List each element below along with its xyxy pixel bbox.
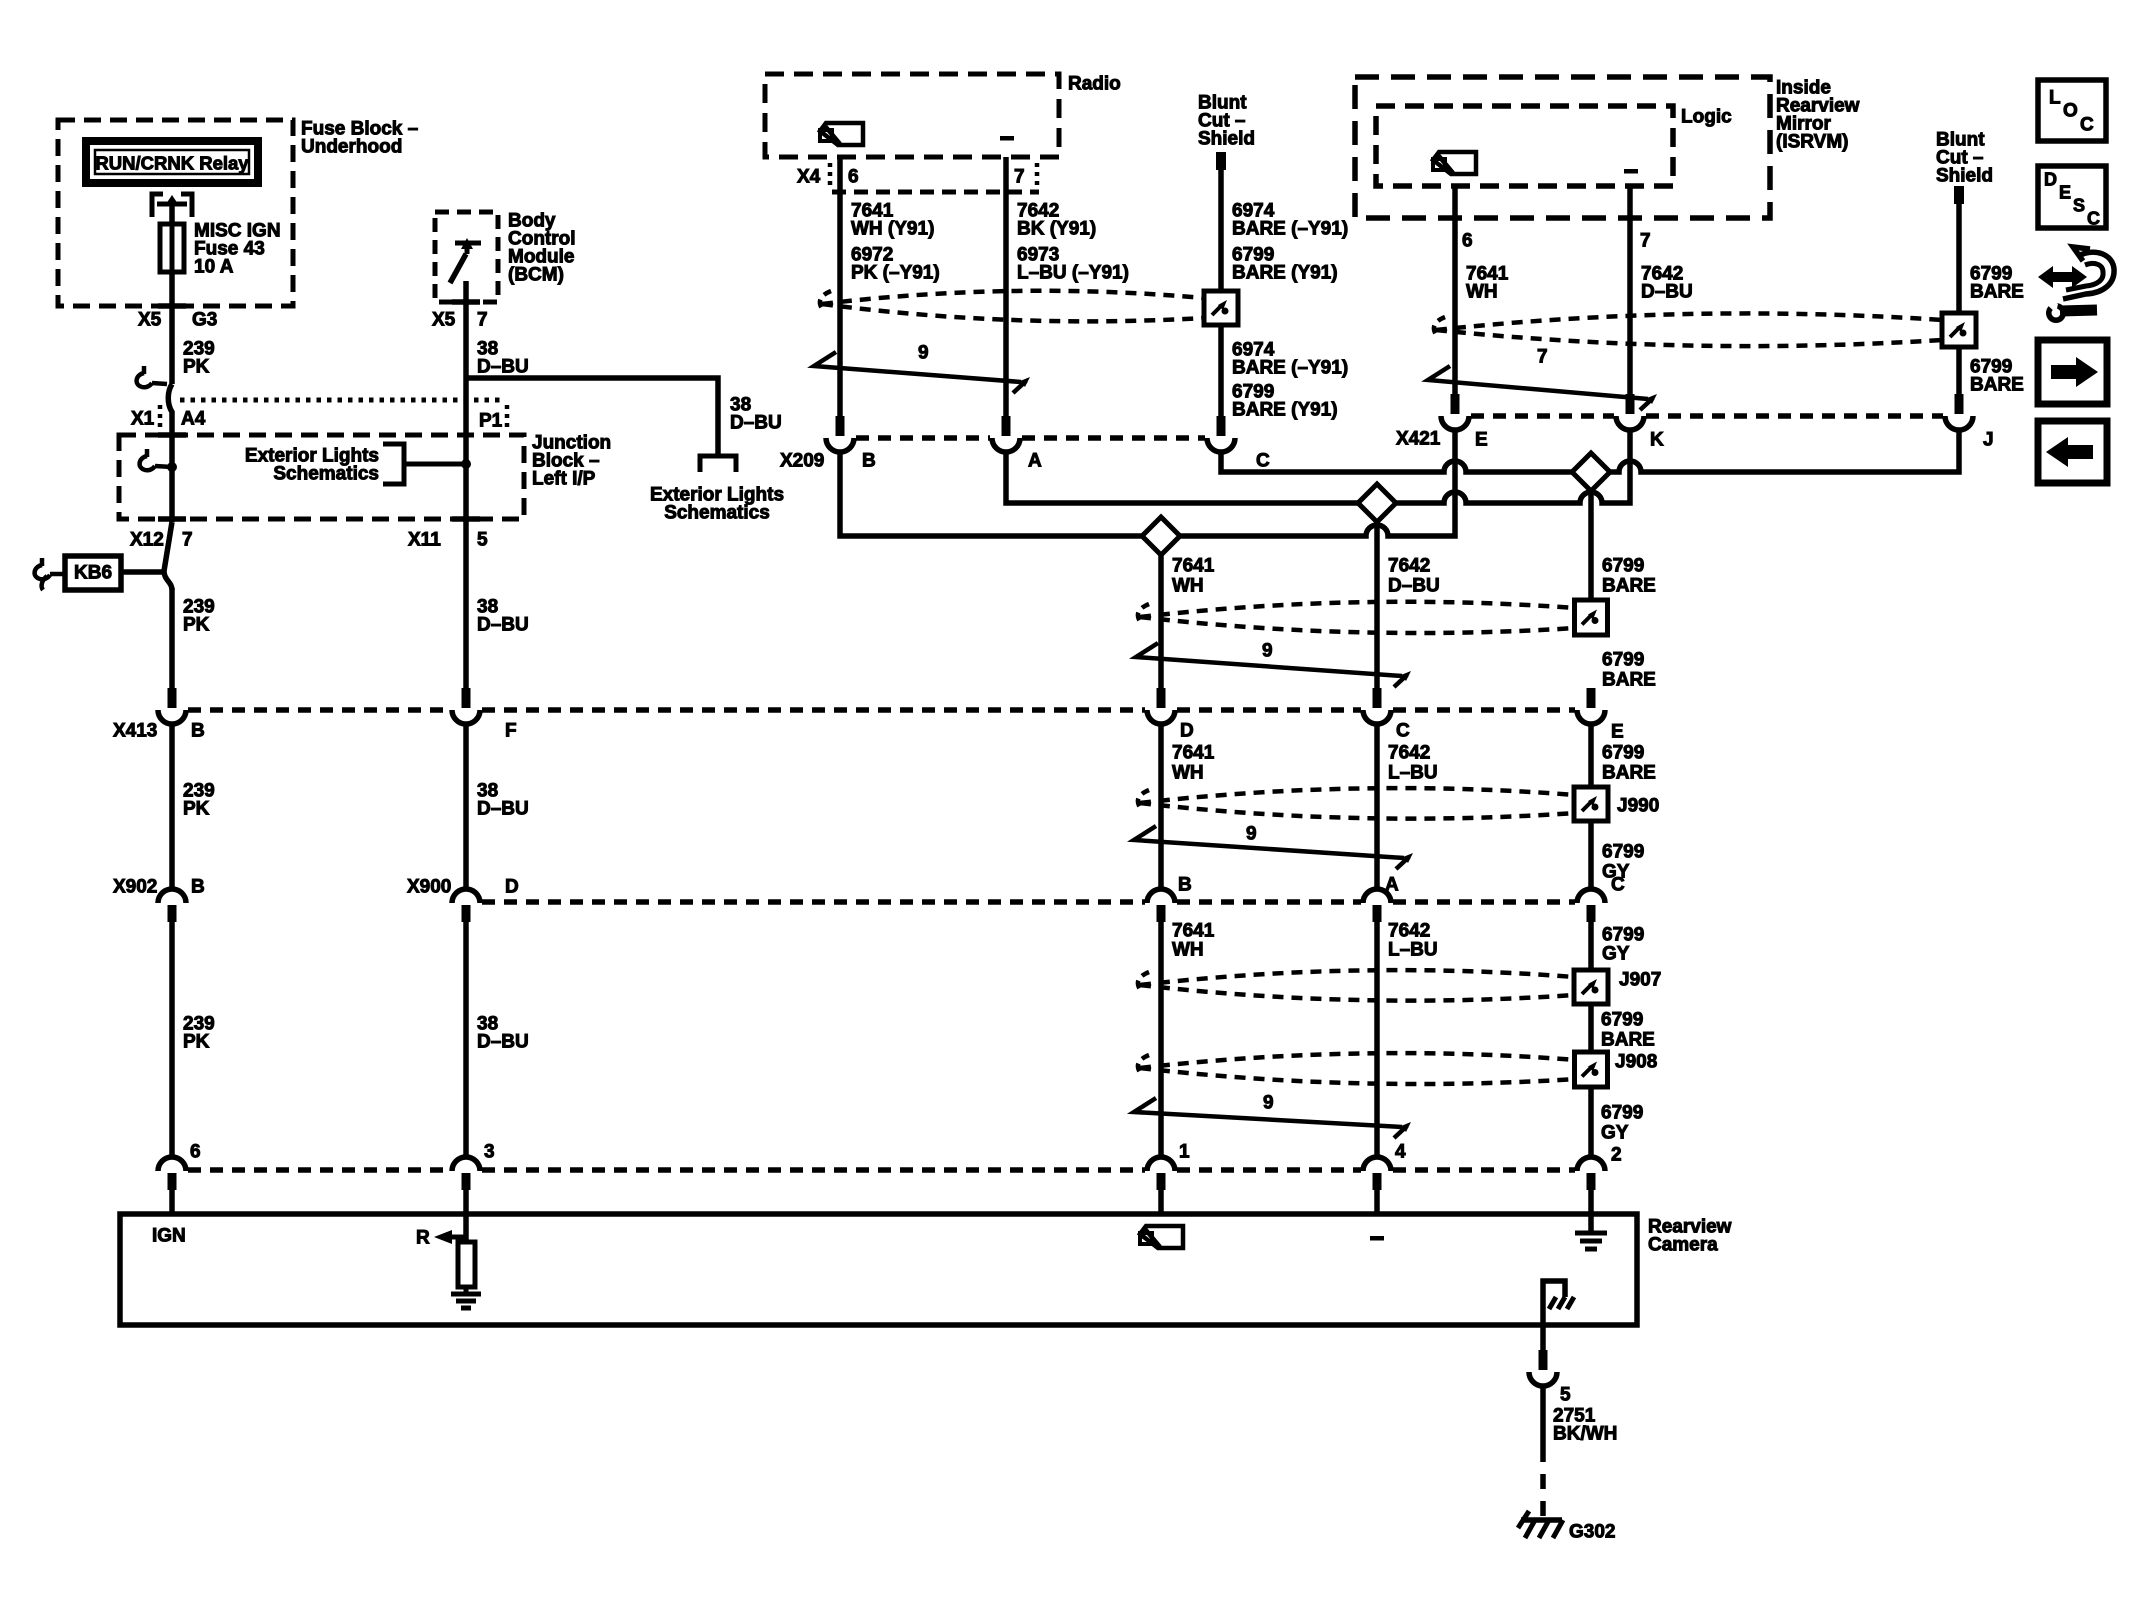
connector X11 pin 5 tick (408, 519, 488, 551)
svg-text:1: 1 (1179, 1142, 1190, 1163)
svg-text:WH: WH (1172, 763, 1204, 784)
svg-text:WH (Y91): WH (Y91) (851, 219, 934, 240)
label 7641 WH (ISRVM) (1466, 264, 1509, 303)
svg-text:X421: X421 (1396, 429, 1441, 450)
label R with arrow (416, 1228, 466, 1249)
label Logic (1681, 107, 1732, 128)
label 7642 BK (Y91) 6973 L-BU (-Y91) (1017, 201, 1129, 284)
svg-text:C: C (1396, 721, 1410, 742)
wire radio pin7 7642 (1003, 157, 1009, 416)
svg-text:K: K (1650, 430, 1664, 451)
connector X12 pin 7 tick (130, 519, 193, 551)
svg-text:E: E (2059, 183, 2071, 203)
wire KB6 to main wire (50, 572, 164, 574)
svg-text:D–BU: D–BU (477, 357, 529, 378)
label 6799 BARE between J907 J908 (1601, 1010, 1655, 1051)
label ISRVM pins 6 and 7 (1462, 231, 1651, 252)
wire 2751 BK/WH to G302 (1540, 1385, 1546, 1516)
svg-text:WH: WH (1466, 282, 1498, 303)
connector pin 5 (1529, 1350, 1571, 1406)
svg-text:D–BU: D–BU (730, 413, 782, 434)
svg-text:C: C (2087, 209, 2100, 229)
label X1 A4 (131, 405, 206, 430)
label P1 (479, 405, 507, 432)
svg-text:PK: PK (183, 615, 210, 636)
wire into camera R input (463, 1190, 469, 1242)
wire into camera IGN (169, 1190, 175, 1214)
svg-text:X12: X12 (130, 530, 164, 551)
connector row D C E dashed line (188, 707, 1575, 713)
label Exterior Lights Schematics 2 (650, 485, 784, 524)
svg-text:Left I/P: Left I/P (532, 469, 596, 490)
sidebar next arrow button (2038, 340, 2107, 404)
svg-text:X11: X11 (408, 530, 441, 551)
svg-text:6799: 6799 (1602, 650, 1644, 671)
svg-text:J: J (1983, 430, 1994, 451)
label Exterior Lights Schematics 1 (245, 446, 379, 485)
blunt cut shield wire terminal (1216, 152, 1226, 170)
svg-text:E: E (1611, 722, 1624, 743)
shield termination box (ISRVM) (1942, 313, 1976, 347)
svg-text:L: L (2049, 88, 2061, 109)
svg-text:7642: 7642 (1388, 556, 1430, 577)
wire 6799 J908 to camera (1588, 1087, 1594, 1158)
label 6799 BARE row2 (1602, 743, 1656, 784)
label Body Control Module (BCM) (508, 211, 576, 286)
label 6799 BARE below box row1 (1602, 650, 1656, 691)
connector X5 pin 7 tick (BCM) (432, 302, 488, 331)
wire 6799 J990 to row3 (1588, 821, 1594, 890)
splice hook inside junction block (140, 449, 177, 472)
wire 38 D-BU through junction block (463, 400, 469, 519)
camera symbol in camera box (1140, 1226, 1183, 1248)
svg-text:7: 7 (1537, 347, 1548, 368)
label X900 D (407, 877, 519, 898)
chassis ground symbol in camera box (1543, 1281, 1574, 1325)
relay K RUN/CRNK Relay box (86, 141, 258, 183)
twisted pair symbol 9 row2 (1134, 824, 1413, 870)
svg-text:6799: 6799 (1601, 1103, 1643, 1124)
label X413 B (113, 721, 205, 742)
svg-text:A: A (1028, 451, 1042, 472)
BCM internal switch (450, 238, 481, 283)
svg-text:6799: 6799 (1602, 743, 1644, 764)
connector X902 pin B (158, 889, 186, 922)
wire 38 D-BU to X900 (463, 722, 469, 890)
wire 7641 row2-row3 (1158, 722, 1164, 890)
svg-text:GY: GY (1602, 944, 1630, 965)
svg-text:GY: GY (1601, 1123, 1629, 1144)
svg-text:P1: P1 (479, 411, 503, 432)
label Blunt Cut Shield (radio) (1198, 93, 1255, 150)
svg-text:D: D (1180, 721, 1194, 742)
svg-text:D: D (2044, 170, 2057, 190)
label 7642 D-BU (ISRVM) (1641, 264, 1693, 303)
svg-text:6: 6 (1462, 231, 1473, 252)
svg-text:6799: 6799 (1602, 842, 1644, 863)
svg-text:BARE (–Y91): BARE (–Y91) (1232, 219, 1348, 240)
svg-text:D–BU: D–BU (477, 1032, 529, 1053)
svg-text:L–BU: L–BU (1388, 940, 1438, 961)
svg-text:X4: X4 (797, 167, 821, 188)
wire ISRVM pin7 7642 D-BU (1627, 186, 1633, 396)
wire 38 D-BU to camera pin 3 (463, 922, 469, 1158)
svg-text:9: 9 (1262, 641, 1273, 662)
svg-text:5: 5 (477, 530, 488, 551)
wire 6799 J907 to J908 (1588, 1004, 1594, 1052)
label IGN (152, 1226, 186, 1247)
svg-text:2: 2 (1611, 1145, 1622, 1166)
svg-text:Shield: Shield (1936, 166, 1993, 187)
connector X209 pin C (1207, 416, 1270, 472)
svg-text:PK: PK (183, 1032, 210, 1053)
svg-text:B: B (862, 451, 876, 472)
svg-text:D–BU: D–BU (1388, 576, 1440, 597)
shield splice box J990 (1574, 787, 1659, 821)
relay output terminal (152, 194, 192, 217)
shield ellipse J907 (1138, 970, 1574, 1001)
svg-text:6: 6 (190, 1142, 201, 1163)
connector pin 1 at camera (1147, 1142, 1190, 1191)
label 6799 BARE lower (ISRVM) (1970, 357, 2024, 396)
svg-text:R: R (416, 1228, 430, 1249)
svg-text:WH: WH (1172, 940, 1204, 961)
connector pin D (1147, 688, 1194, 742)
label wire 239 PK (second) (183, 597, 215, 636)
wire jog to KB6 junction (164, 522, 172, 590)
label wire 38 D-BU (third) (477, 781, 529, 820)
svg-text:C: C (2080, 115, 2094, 136)
connector X421 row dashed (1471, 413, 1943, 419)
label 7641 WH row3 (1172, 921, 1215, 961)
label wire 38 D-BU (second) (477, 597, 529, 636)
label Rearview Camera (1648, 1217, 1732, 1256)
body control module dashed box (435, 212, 498, 302)
wire drop 7642 D-BU from splice (1374, 513, 1380, 688)
connector X209 row dashed (856, 435, 1205, 441)
junction block left I/P dashed box (119, 435, 524, 519)
shield ellipse around ISRVM pair (1434, 313, 1942, 346)
svg-text:9: 9 (1263, 1093, 1274, 1114)
wire 239 PK to camera pin 6 (169, 922, 175, 1158)
twisted pair symbol 9 row3 (1134, 1093, 1411, 1139)
label G302 (1569, 1522, 1615, 1543)
splice diamond 6799 (1572, 453, 1610, 491)
minus terminal in radio (1000, 136, 1014, 141)
svg-text:F: F (505, 721, 517, 742)
blunt cut shield terminal (ISRVM) (1954, 186, 1964, 204)
svg-text:J907: J907 (1619, 970, 1661, 991)
twisted pair symbol 9 (radio) (814, 343, 1030, 394)
camera symbol in ISRVM (1433, 152, 1476, 174)
svg-text:X5: X5 (432, 310, 456, 331)
svg-text:7: 7 (1014, 167, 1025, 188)
connector pin 4 at camera (1363, 1142, 1406, 1191)
svg-text:B: B (191, 877, 205, 898)
svg-text:BK/WH: BK/WH (1553, 1424, 1617, 1445)
connector X413 pin B (158, 688, 186, 724)
connector X4 dotted box (830, 163, 1039, 192)
wire tick crossing junction box top (158, 432, 186, 438)
svg-text:BARE: BARE (1602, 576, 1656, 597)
svg-text:3: 3 (484, 1142, 495, 1163)
svg-text:10 A: 10 A (194, 257, 234, 278)
shield termination box (radio) (1204, 291, 1238, 325)
signal ground symbol in camera box (1575, 1214, 1607, 1249)
svg-text:Logic: Logic (1681, 107, 1732, 128)
svg-text:B: B (1178, 875, 1192, 896)
svg-text:6799: 6799 (1601, 1010, 1643, 1031)
svg-text:BARE: BARE (1970, 375, 2024, 396)
label 7642 L-BU row2 (1388, 743, 1438, 784)
label 6799 GY row3 (1602, 925, 1644, 965)
minus terminal in ISRVM (1624, 169, 1638, 174)
svg-text:G3: G3 (192, 310, 217, 331)
inside rearview mirror dashed box (1355, 77, 1770, 218)
wire 239 PK to X902 (169, 722, 175, 890)
svg-text:BK (Y91): BK (Y91) (1017, 219, 1096, 240)
fuse block underhood dashed box (58, 120, 293, 306)
shield drain wire 6799 BARE (ISRVM) (1956, 204, 1962, 396)
label 6974 BARE (-Y91) 6799 BARE (Y91) upper (1232, 201, 1348, 284)
label 38 D-BU branch (730, 395, 782, 434)
connector X413 pin F (452, 688, 517, 742)
svg-text:Schematics: Schematics (273, 464, 379, 485)
svg-text:A4: A4 (181, 409, 206, 430)
wire from relay to fuse (169, 204, 175, 224)
svg-text:X5: X5 (138, 310, 162, 331)
svg-text:PK: PK (183, 799, 210, 820)
svg-text:E: E (1475, 430, 1488, 451)
label 6799 BARE upper (ISRVM) (1970, 264, 2024, 303)
camera symbol in radio (820, 123, 863, 145)
wire ISRVM pin6 7641 WH (1452, 186, 1458, 396)
svg-text:7: 7 (1640, 231, 1651, 252)
wire fuse to X5 G3 (169, 272, 175, 384)
svg-text:G302: G302 (1569, 1522, 1615, 1543)
connector row B A C dashed line (482, 899, 1575, 905)
svg-text:B: B (191, 721, 205, 742)
sidebar pointer hand icon (2038, 247, 2114, 299)
label 6799 GY above camera (1601, 1103, 1643, 1144)
label 7641 WH (Y91) 6972 PK (-Y91) (851, 201, 940, 284)
svg-text:5: 5 (1560, 1385, 1571, 1406)
svg-text:PK: PK (183, 357, 210, 378)
connector X421 pin J (1945, 394, 1994, 451)
svg-text:Schematics: Schematics (664, 503, 770, 524)
svg-text:WH: WH (1172, 576, 1204, 597)
wires into camera box (1161, 1190, 1591, 1214)
svg-text:7641: 7641 (1172, 743, 1215, 764)
wire jog through X1 A4 (168, 384, 172, 435)
label X421 (1396, 429, 1441, 450)
label X4 pins 6 and 7 (797, 167, 1025, 188)
svg-text:C: C (1256, 451, 1270, 472)
label wire 239 PK (top) (183, 339, 215, 378)
svg-text:Camera: Camera (1648, 1235, 1718, 1256)
svg-text:O: O (2063, 101, 2078, 122)
svg-text:X902: X902 (113, 877, 157, 898)
svg-text:BARE (Y91): BARE (Y91) (1232, 263, 1338, 284)
sidebar wrench icon (2042, 298, 2097, 323)
svg-text:7642: 7642 (1388, 743, 1430, 764)
svg-text:X413: X413 (113, 721, 157, 742)
twisted pair symbol 9 row1 (1136, 641, 1411, 688)
svg-text:6799: 6799 (1602, 556, 1644, 577)
sidebar previous arrow button (2038, 421, 2107, 483)
label 7642 D-BU below splice (1388, 556, 1440, 597)
label Junction Block - Left I/P (532, 433, 611, 490)
svg-text:KB6: KB6 (74, 563, 112, 584)
connector X421 pin E (1441, 394, 1488, 451)
svg-text:7642: 7642 (1388, 921, 1430, 942)
twisted pair symbol 7 (ISRVM) (1428, 347, 1657, 411)
label 7641 WH below splice (1172, 556, 1215, 597)
shield bus line C to J (1221, 429, 1959, 472)
sidebar DESC button (2038, 166, 2106, 229)
wire 6799 row2 to J990 (1588, 722, 1594, 787)
inline harness connector X1 dotted line (180, 398, 503, 403)
connector pin C row2 (1363, 688, 1410, 742)
bracket to exterior lights schematics 2 (700, 456, 736, 472)
svg-text:PK (–Y91): PK (–Y91) (851, 263, 940, 284)
svg-text:S: S (2073, 196, 2085, 216)
ground G302 (1518, 1511, 1563, 1538)
sidebar LOC button (2038, 80, 2106, 141)
wire 6799 row3 to J907 (1588, 922, 1594, 970)
label 6974 BARE (-Y91) 6799 BARE (Y91) lower (1232, 340, 1348, 421)
shield ellipse J908 (1138, 1053, 1576, 1084)
svg-text:L–BU: L–BU (1388, 763, 1438, 784)
splice diamond 7641 (1142, 517, 1180, 555)
signal bus line A to K 7642 (1006, 429, 1630, 503)
wire radio pin6 7641 (837, 157, 843, 416)
label Blunt Cut Shield (ISRVM) (1936, 130, 1993, 187)
shield splice box J908 (1575, 1052, 1658, 1088)
svg-text:X1: X1 (131, 409, 155, 430)
label wire 38 D-BU (top) (477, 339, 529, 378)
svg-text:D: D (505, 877, 519, 898)
wire 38 D-BU to X413 F (463, 519, 469, 688)
label X209 (780, 451, 824, 472)
connector pin E row2 (1577, 688, 1624, 743)
svg-text:X900: X900 (407, 877, 451, 898)
svg-text:BARE (Y91): BARE (Y91) (1232, 400, 1338, 421)
svg-text:Shield: Shield (1198, 129, 1255, 150)
svg-text:Radio: Radio (1068, 74, 1121, 95)
shield termination box row1 (1575, 600, 1608, 635)
label wire 239 PK (fourth) (183, 1014, 215, 1053)
minus terminal in camera box (1370, 1236, 1384, 1241)
svg-text:C: C (1611, 875, 1625, 896)
connector X421 pin K (1616, 394, 1664, 451)
signal bus line B to E 7641 (840, 429, 1455, 536)
svg-text:L–BU (–Y91): L–BU (–Y91) (1017, 263, 1129, 284)
svg-text:IGN: IGN (152, 1226, 186, 1247)
inline connector hook at X1 (137, 366, 167, 387)
svg-text:7641: 7641 (1172, 556, 1215, 577)
svg-text:BARE: BARE (1602, 763, 1656, 784)
KB6 reference box (65, 556, 121, 590)
svg-text:RUN/CRNK Relay: RUN/CRNK Relay (95, 153, 249, 174)
svg-text:D–BU: D–BU (1641, 282, 1693, 303)
resistor in camera (458, 1242, 475, 1287)
svg-text:Underhood: Underhood (301, 137, 402, 158)
svg-text:(ISRVM): (ISRVM) (1776, 132, 1848, 153)
wire 239 PK to X413 (169, 588, 175, 688)
wire BCM out (463, 281, 469, 400)
radio dashed box (765, 74, 1059, 157)
shield ellipse J990 (1138, 788, 1575, 819)
svg-text:J908: J908 (1615, 1052, 1657, 1073)
label X902 B (113, 877, 205, 898)
svg-text:7: 7 (477, 310, 488, 331)
svg-text:6799: 6799 (1602, 925, 1644, 946)
hook terminal left of KB6 (35, 558, 50, 590)
wire 7641 row3 to camera (1158, 922, 1164, 1158)
label Radio (1068, 74, 1121, 95)
connector X5 pin G3 tick (138, 306, 217, 331)
svg-text:BARE: BARE (1602, 670, 1656, 691)
connector pin 2 at camera (1577, 1145, 1622, 1191)
splice diamond 7642 (1358, 484, 1396, 522)
wire 239 PK through junction block (169, 435, 175, 522)
wire 7642 row3 to camera (1374, 922, 1380, 1158)
shield drain wire 6974/6799 (1218, 170, 1224, 416)
label Fuse Block - Underhood (301, 119, 418, 158)
svg-text:7: 7 (182, 530, 193, 551)
camera pin row dashed line (188, 1167, 1575, 1173)
connector X209 pin A (992, 416, 1042, 472)
connector pin A row3 (1363, 875, 1399, 923)
label Inside Rearview Mirror (ISRVM) (1776, 78, 1860, 153)
svg-text:7641: 7641 (1172, 921, 1215, 942)
label 6799 GY above row3 (1602, 842, 1644, 883)
svg-text:J990: J990 (1617, 796, 1659, 817)
shield ellipse around radio pair (820, 291, 1204, 322)
label 7642 L-BU row3 (1388, 921, 1438, 961)
connector X209 pin B (826, 416, 876, 472)
connector pin C row3 (1577, 875, 1625, 923)
svg-text:BARE: BARE (1970, 282, 2024, 303)
label 2751 BK/WH (1553, 1406, 1617, 1445)
svg-text:9: 9 (918, 343, 929, 364)
svg-text:6: 6 (848, 167, 859, 188)
label wire 38 D-BU (fourth) (477, 1014, 529, 1053)
svg-text:BARE: BARE (1601, 1030, 1655, 1051)
wire drop 7641 WH from splice (1158, 546, 1164, 688)
ISRVM logic dashed box (1376, 106, 1673, 186)
svg-text:(BCM): (BCM) (508, 265, 564, 286)
branch wire 38 D-BU to exterior lights (466, 378, 718, 455)
label wire 239 PK (third) (183, 781, 215, 820)
connector X900 pin D (452, 889, 480, 922)
fuse F43 MISC IGN 10A (160, 224, 184, 272)
connector pin 6 at camera (158, 1142, 201, 1191)
bracket to exterior lights schematics (383, 444, 471, 484)
wire 7642 row2-row3 (1374, 722, 1380, 890)
svg-text:4: 4 (1395, 1142, 1406, 1163)
svg-text:A: A (1385, 875, 1399, 896)
svg-text:BARE (–Y91): BARE (–Y91) (1232, 358, 1348, 379)
wire camera ground out (1540, 1325, 1546, 1352)
connector pin B row3 (1147, 875, 1192, 923)
svg-text:D–BU: D–BU (477, 799, 529, 820)
ground symbol below resistor (451, 1287, 481, 1308)
label MISC IGN Fuse 43 10 A (194, 221, 281, 278)
label 7641 WH row2 (1172, 743, 1215, 784)
svg-text:9: 9 (1246, 824, 1257, 845)
